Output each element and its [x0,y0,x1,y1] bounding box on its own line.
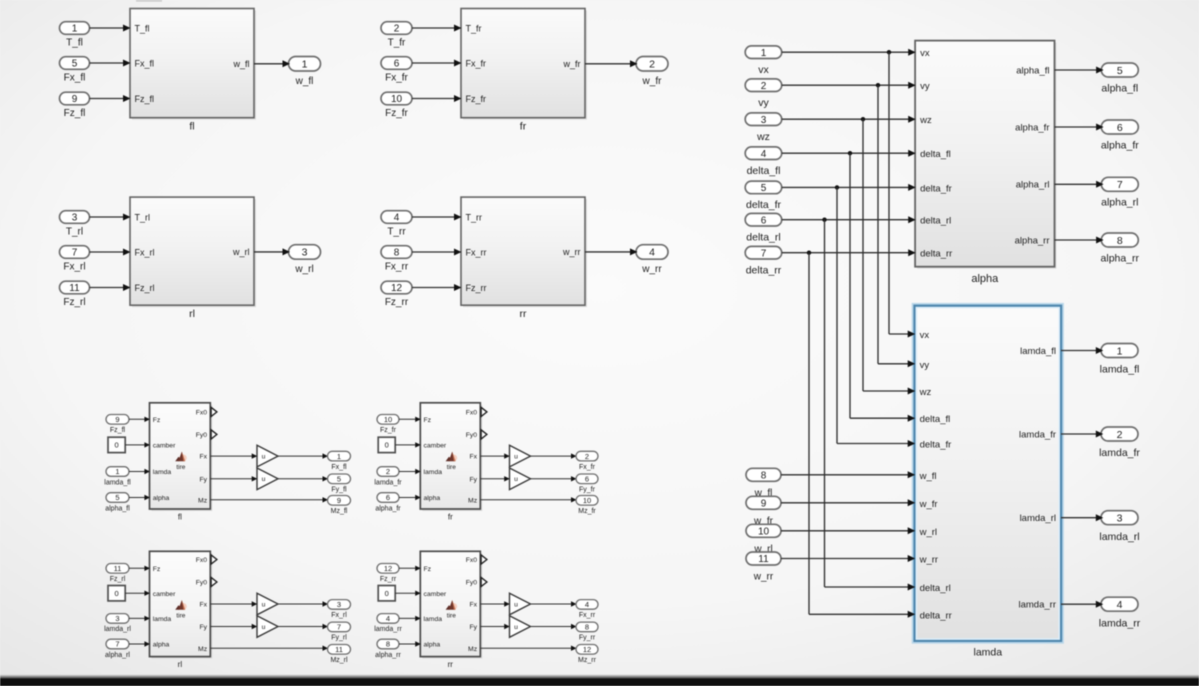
wire [278,626,326,628]
wire [399,418,419,420]
wire (Mz) [210,647,326,649]
svg-text:wz: wz [919,387,932,398]
svg-text:6: 6 [585,475,589,484]
svg-text:10: 10 [583,496,591,505]
inport 10 (Fz_fr) [377,415,399,425]
wire [129,471,149,473]
inport 11 (Fz_rl) [106,564,129,574]
svg-text:w_rr: w_rr [919,555,938,566]
constant block 0 (camber) [108,437,125,452]
wire [1055,69,1101,71]
tire subsystem block fl [152,405,213,511]
wire [129,617,149,619]
wire (Mz) [480,499,575,501]
svg-text:fl: fl [189,121,194,133]
inport 6 (delta_rl) [745,213,782,226]
wire (Mz) [210,499,326,501]
wire [531,626,575,628]
inport 12 (Fz_rr) [377,564,399,574]
svg-text:3: 3 [72,213,78,224]
svg-text:alpha_fl: alpha_fl [105,505,130,512]
svg-text:3: 3 [302,247,308,259]
svg-text:4: 4 [585,600,589,609]
svg-text:Fx_fl: Fx_fl [331,464,347,471]
inport 7 (delta_rr) [745,246,782,259]
outport 7 (alpha_rl) [1101,177,1138,191]
svg-text:lamda_fl: lamda_fl [1020,346,1056,357]
gain block u (Fy path) [257,468,278,490]
constant block 0 (camber) [378,586,395,601]
svg-text:10: 10 [384,415,392,424]
MATLAB function icon (tire) [446,452,458,462]
svg-text:12: 12 [391,283,403,294]
constant block 0 (camber) [378,437,395,452]
wire [129,497,149,499]
wire [782,152,914,154]
svg-text:0: 0 [115,589,119,598]
wire [399,617,419,619]
svg-text:T_fl: T_fl [66,37,83,48]
wire [129,643,149,645]
svg-text:delta_rr: delta_rr [746,265,782,277]
svg-text:Fx0: Fx0 [466,557,478,564]
inport 9 (Fz_fl) [60,92,90,105]
wire [399,567,419,569]
svg-text:Fy_rr: Fy_rr [579,635,596,642]
svg-text:Fz: Fz [424,417,432,424]
svg-text:lamda: lamda [424,469,443,476]
svg-text:rl: rl [189,308,195,320]
svg-text:Mz_rl: Mz_rl [330,657,348,664]
outport 7 (Fy_rl) [328,622,351,632]
wire [480,603,508,605]
svg-text:delta_rl: delta_rl [746,232,780,244]
svg-text:camber: camber [424,443,447,450]
wire [1061,433,1100,435]
junction [807,251,811,255]
svg-text:Fy0: Fy0 [466,432,478,439]
inport 8 (Fx_rr) [381,246,412,259]
svg-text:T_fr: T_fr [388,37,406,48]
wire [210,626,256,628]
inport 10 (Fz_fr) [381,92,412,105]
svg-text:alpha: alpha [424,642,441,649]
svg-text:10: 10 [758,526,770,537]
tire subsystem block fr [422,405,482,511]
svg-text:Fx_rl: Fx_rl [135,248,155,258]
svg-text:Fx_fl: Fx_fl [135,59,155,69]
wire (Mz) [480,647,575,649]
svg-text:delta_fl: delta_fl [920,149,951,160]
outport 8 (alpha_rr) [1101,233,1138,247]
svg-text:Mz_rr: Mz_rr [578,657,597,664]
svg-text:Fx_rl: Fx_rl [331,612,347,619]
svg-text:Fx: Fx [200,602,208,609]
svg-text:Fx_fr: Fx_fr [385,72,408,83]
svg-text:Fy_fr: Fy_fr [579,487,596,494]
svg-text:vx: vx [920,48,930,59]
outport 1 (Fx_fl) [328,451,351,461]
inport 2 (vy) [745,79,782,92]
svg-text:alpha_rr: alpha_rr [1015,235,1050,246]
svg-text:u: u [514,601,518,608]
svg-text:11: 11 [335,645,343,654]
outport 4 (lamda_rr) [1101,597,1138,611]
svg-text:fr: fr [448,512,453,521]
svg-text:Fx: Fx [470,602,478,609]
svg-text:7: 7 [761,248,767,259]
svg-text:vy: vy [758,97,769,109]
wire [1061,350,1100,352]
svg-text:u: u [262,476,266,483]
svg-text:w_rr: w_rr [562,247,581,257]
wire (branch delta_rl to lamda) [824,220,826,587]
wire [210,478,256,480]
wire [412,62,460,64]
outport 1 (w_fl) [289,57,321,72]
inport 5 (alpha_fl) [106,493,129,503]
wire [254,251,288,253]
gain block u (Fx path) [510,445,531,467]
svg-text:lamda_rr: lamda_rr [374,626,402,633]
svg-text:w_fl: w_fl [232,59,249,69]
svg-text:camber: camber [153,591,176,598]
inport 10 (w_rl) [746,524,781,537]
subsystem block rl [132,199,256,307]
svg-text:vx: vx [920,330,930,341]
svg-text:1: 1 [1117,345,1123,357]
junction [887,50,891,54]
wire [782,252,914,254]
svg-text:Fz: Fz [424,566,432,573]
svg-text:Fy: Fy [470,476,478,483]
svg-text:alpha: alpha [424,495,441,502]
wire [210,603,256,605]
svg-text:Fz_rr: Fz_rr [466,283,487,293]
svg-text:w_fr: w_fr [642,76,663,87]
svg-text:Fz_fl: Fz_fl [110,427,126,434]
inport 11 (w_rr) [746,552,781,565]
wire [90,62,130,64]
svg-text:4: 4 [761,149,767,160]
wire [782,219,914,221]
wire [782,186,914,188]
inport 2 (lamda_fr) [377,467,399,477]
svg-text:w_fl: w_fl [919,471,937,482]
inport 6 (Fx_fr) [381,57,412,70]
outport 2 (w_fr) [636,57,668,72]
svg-text:4: 4 [649,247,655,259]
svg-text:5: 5 [72,59,78,70]
wire [90,287,130,289]
wire [585,251,636,253]
svg-text:12: 12 [384,564,392,573]
inport 4 (delta_fl) [745,147,782,160]
svg-text:delta_rl: delta_rl [920,583,951,594]
svg-text:Fy0: Fy0 [196,580,208,587]
svg-text:7: 7 [72,248,78,259]
svg-text:T_rr: T_rr [387,226,406,237]
wire [781,530,914,532]
svg-text:alpha_fr: alpha_fr [1015,122,1049,133]
gain block u (Fx path) [257,445,278,467]
svg-text:Fy_rl: Fy_rl [331,635,347,642]
outport 1 (lamda_fl) [1101,344,1138,358]
wire [129,418,149,420]
outport 3 (w_rl) [289,245,321,260]
wire [480,478,508,480]
svg-text:T_rr: T_rr [466,213,483,223]
svg-text:Fy_fl: Fy_fl [331,487,347,494]
wire [278,455,326,457]
svg-text:alpha: alpha [971,273,999,285]
svg-text:Fy0: Fy0 [196,432,208,439]
svg-text:2: 2 [386,467,390,476]
wire [412,98,460,100]
outport 9 (Mz_fl) [328,496,351,506]
wire [1055,126,1101,128]
svg-text:u: u [262,454,266,461]
gain block u (Fy path) [510,616,531,638]
wire [1061,603,1100,605]
wire [782,118,914,120]
wire [1061,517,1100,519]
svg-text:0: 0 [115,441,119,450]
svg-text:5: 5 [115,493,119,502]
svg-text:Mz: Mz [198,646,208,653]
svg-text:Fy: Fy [200,624,208,631]
wire [254,63,288,65]
svg-text:Fz_rr: Fz_rr [380,576,397,583]
gain block u (Fy path) [257,616,278,638]
svg-text:1: 1 [337,452,341,461]
svg-text:3: 3 [1117,513,1123,525]
svg-text:T_rl: T_rl [66,226,83,237]
wire [90,98,130,100]
svg-text:wz: wz [919,115,932,126]
wire [399,497,419,499]
gain block u (Fy path) [510,468,531,490]
svg-text:2: 2 [394,24,400,35]
outport 6 (alpha_fr) [1101,120,1138,134]
wire (branch delta_fl to lamda) [849,153,851,418]
svg-text:1: 1 [761,48,767,59]
svg-text:Fx_fr: Fx_fr [466,59,487,69]
svg-text:2: 2 [1117,429,1123,441]
svg-text:8: 8 [585,623,589,632]
svg-text:9: 9 [72,94,78,105]
svg-text:delta_rl: delta_rl [920,216,951,227]
svg-text:Fx0: Fx0 [196,410,208,417]
outport 3 (lamda_rl) [1101,511,1138,525]
inport 3 (T_rl) [60,211,90,224]
svg-text:Fz_rl: Fz_rl [63,297,85,308]
svg-text:8: 8 [761,470,767,481]
svg-text:u: u [514,624,518,631]
wire [1055,183,1101,185]
junction [835,185,839,189]
svg-text:u: u [514,476,518,483]
svg-text:5: 5 [1117,65,1123,77]
unconnected output arrow [211,430,217,439]
svg-text:u: u [262,624,266,631]
svg-text:rr: rr [448,660,454,669]
svg-text:w_rl: w_rl [232,247,250,257]
svg-text:5: 5 [761,183,767,194]
inport 9 (Fz_fl) [106,415,129,425]
inport 5 (Fx_fl) [60,57,90,70]
wire (branch delta_fr to lamda) [836,187,838,443]
svg-text:lamda_rl: lamda_rl [104,626,131,633]
svg-text:0: 0 [385,441,389,450]
outport 4 (w_rr) [636,245,668,260]
wire [480,626,508,628]
svg-text:rr: rr [520,308,527,320]
svg-text:9: 9 [337,496,341,505]
svg-text:fl: fl [178,512,182,521]
inport 1 (vx) [745,46,782,59]
svg-text:Fz_rl: Fz_rl [135,283,155,293]
svg-text:w_fr: w_fr [562,59,580,69]
svg-text:alpha: alpha [153,642,170,649]
subsystem block rr [463,199,587,307]
svg-text:Fx_rr: Fx_rr [466,248,487,258]
wire [90,27,130,29]
wire [782,51,914,53]
svg-text:fr: fr [520,121,527,133]
svg-text:6: 6 [386,493,390,502]
svg-text:u: u [262,601,266,608]
svg-text:w_rr: w_rr [641,264,662,275]
cropped element sliver at top edge [136,0,162,2]
svg-text:3: 3 [115,614,119,623]
svg-text:lamda: lamda [153,469,172,476]
svg-text:tire: tire [176,464,185,471]
svg-text:delta_fr: delta_fr [920,440,952,451]
svg-text:Fx_fr: Fx_fr [579,464,596,471]
unconnected output arrow [211,577,217,586]
svg-text:7: 7 [1117,179,1123,191]
svg-text:rl: rl [178,660,183,669]
unconnected output arrow [211,555,217,564]
wire [781,558,914,560]
svg-text:Fx0: Fx0 [466,410,478,417]
junction [876,83,880,87]
svg-text:9: 9 [115,415,119,424]
svg-text:4: 4 [386,614,390,623]
svg-text:Mz: Mz [468,497,478,504]
wire [782,84,914,86]
tire subsystem block rl [152,553,213,658]
svg-text:alpha_rl: alpha_rl [105,652,130,659]
wire [210,455,256,457]
outport 5 (alpha_fl) [1101,63,1138,77]
svg-text:Fx_rl: Fx_rl [63,261,85,272]
wire (branch delta_rr to lamda) [808,253,810,615]
svg-text:10: 10 [391,94,403,105]
svg-text:1: 1 [115,467,119,476]
outport 10 (Mz_fr) [576,496,598,506]
wire (branch vy to lamda) [877,85,879,364]
subsystem block fl [132,11,256,120]
svg-text:lamda_rl: lamda_rl [1020,513,1056,524]
unconnected output arrow [211,407,217,416]
svg-text:lamda_rr: lamda_rr [1019,600,1057,611]
svg-text:delta_fr: delta_fr [920,183,952,194]
svg-text:12: 12 [583,645,591,654]
svg-text:2: 2 [761,81,767,92]
svg-text:lamda_fr: lamda_fr [1019,429,1056,440]
svg-text:Fx_rr: Fx_rr [385,261,409,272]
svg-text:Fy: Fy [470,624,478,631]
tire subsystem block rr [422,553,482,658]
svg-text:alpha_rr: alpha_rr [375,652,401,659]
inport 1 (T_fl) [60,22,90,35]
svg-text:w_fl: w_fl [295,76,314,87]
inport 8 (w_fl) [746,468,781,481]
svg-text:w_fr: w_fr [919,499,938,510]
svg-text:lamda: lamda [424,616,443,623]
svg-text:5: 5 [337,475,341,484]
svg-text:delta_fl: delta_fl [747,165,781,177]
wire [480,455,508,457]
bottom screen-edge dark bar [0,675,1199,679]
unconnected output arrow [481,407,487,416]
inport 2 (T_fr) [381,22,412,35]
svg-text:11: 11 [69,283,80,294]
svg-text:T_fr: T_fr [466,24,482,34]
wire [412,27,460,29]
svg-text:tire: tire [447,613,456,620]
svg-text:Fx_rr: Fx_rr [579,612,596,619]
outport 6 (Fy_fr) [576,474,598,484]
svg-text:Mz_fr: Mz_fr [578,508,596,515]
constant block 0 (camber) [108,586,125,601]
svg-text:Fz_fr: Fz_fr [380,427,397,434]
svg-text:delta_fr: delta_fr [746,199,782,211]
svg-text:camber: camber [424,591,447,598]
svg-text:Fz_fl: Fz_fl [64,108,86,119]
svg-text:6: 6 [761,215,767,226]
svg-text:Fz_fr: Fz_fr [385,108,408,119]
svg-text:tire: tire [447,464,456,471]
svg-text:w_rl: w_rl [294,264,313,275]
svg-text:6: 6 [1117,122,1123,134]
svg-text:lamda_rr: lamda_rr [1099,617,1141,629]
svg-text:alpha: alpha [153,495,170,502]
wire (branch wz to lamda) [862,119,864,391]
svg-text:delta_fl: delta_fl [920,414,951,425]
inport 6 (alpha_fr) [377,493,399,503]
svg-text:3: 3 [761,115,767,126]
svg-text:lamda_rl: lamda_rl [1099,531,1139,543]
gain block u (Fx path) [257,593,278,615]
svg-text:2: 2 [649,59,655,71]
svg-text:vy: vy [920,360,930,371]
wire [278,603,326,605]
inport 3 (lamda_rl) [106,614,129,624]
svg-text:tire: tire [176,613,185,620]
inport 7 (alpha_rl) [106,639,129,649]
svg-text:7: 7 [115,640,119,649]
unconnected output arrow [481,430,487,439]
wire [412,216,460,218]
wire [90,251,130,253]
inport 11 (Fz_rl) [60,281,90,294]
svg-text:lamda_fl: lamda_fl [1100,364,1140,376]
inport 12 (Fz_rr) [381,281,412,294]
svg-text:4: 4 [394,213,400,224]
